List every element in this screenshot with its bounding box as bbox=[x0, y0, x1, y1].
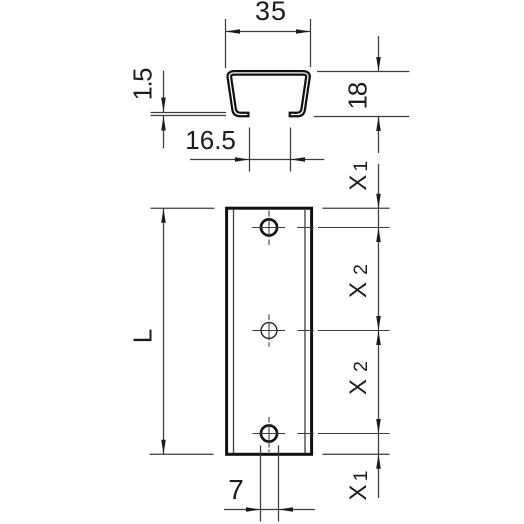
hole H1 (top) bbox=[261, 219, 277, 235]
centerline H3 horizontal bbox=[253, 433, 390, 435]
svg-text:7: 7 bbox=[228, 474, 244, 505]
bend line left bbox=[233, 210, 235, 453]
svg-text:35: 35 bbox=[255, 0, 287, 26]
centerline H1 vertical bbox=[268, 210, 270, 245]
arrow up at hole1 center bbox=[376, 228, 381, 243]
dimension L: dim line + arrows bbox=[163, 208, 165, 454]
wire: material surface lines extended left (1.5 thickness) bbox=[151, 112, 227, 114]
dimension 7: dim line + arrows bbox=[224, 509, 315, 511]
centerline H3 vertical bbox=[268, 417, 270, 452]
centerline H2 horizontal bbox=[252, 330, 389, 332]
dimension 35: dim line + arrows bbox=[226, 31, 311, 33]
dimension 16.5: extension lines bbox=[249, 128, 251, 172]
plate front view: outer rectangle bbox=[227, 208, 312, 454]
dimension L: extension lines bbox=[151, 207, 215, 209]
arrow up at plate bottom bbox=[376, 454, 381, 469]
dimension 1.5: arrows + line bbox=[163, 71, 165, 112]
dimension 16.5: dim line + arrows bbox=[190, 159, 324, 161]
svg-text:L: L bbox=[128, 329, 158, 343]
X dimension column: vertical line bbox=[378, 164, 380, 498]
profile cross-section outer+inner contour (C channel) bbox=[229, 73, 308, 115]
dimension 7: extension lines bbox=[260, 445, 262, 521]
centerline H2 vertical bbox=[268, 314, 270, 347]
svg-text:1.5: 1.5 bbox=[130, 68, 158, 101]
X dimension column: extension lines plate top/bottom bbox=[323, 207, 390, 209]
arrows hourglass at hole2 center bbox=[376, 316, 381, 331]
centerline H1 horizontal bbox=[252, 227, 390, 229]
arrow down at hole3 center bbox=[376, 419, 381, 434]
dimension 18: dim line + arrows bbox=[378, 36, 380, 72]
arrow down at plate top bbox=[376, 194, 381, 209]
svg-text:16.5: 16.5 bbox=[185, 125, 236, 155]
hole H2 (middle, thin) bbox=[261, 323, 277, 339]
svg-text:18: 18 bbox=[343, 82, 373, 109]
hole H3 (bottom) bbox=[261, 425, 277, 441]
bend line right bbox=[304, 210, 306, 453]
dimension 18: extension lines bbox=[317, 71, 409, 73]
dimension 35: extension lines bbox=[225, 19, 227, 68]
